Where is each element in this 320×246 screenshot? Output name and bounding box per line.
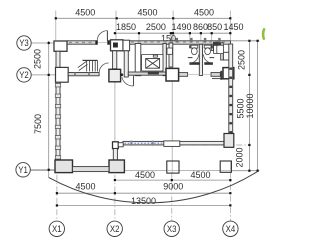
- extension X1 bottom: [56, 175, 58, 221]
- right dim line B (10000): [257, 41, 259, 171]
- entrance door arc: [97, 31, 107, 41]
- right dim line A (2500/5500/2000): [248, 41, 250, 171]
- svg-text:1450: 1450: [223, 22, 243, 32]
- svg-text:4500: 4500: [194, 8, 214, 18]
- toilet short partition right: [211, 44, 213, 50]
- elevator door sill dark: [148, 72, 159, 75]
- ticks bottom row2: [56, 192, 58, 194]
- wc1 tank: [191, 45, 198, 48]
- blue dashed segment: [125, 142, 164, 144]
- svg-text:4500: 4500: [135, 170, 155, 180]
- column X3/Y2: [166, 68, 179, 81]
- wall insulation dashes: [69, 42, 95, 44]
- junction nub: [118, 143, 123, 147]
- stair door arc: [99, 63, 109, 73]
- column X4/Y1: [220, 161, 231, 172]
- wall top band right segment: [109, 41, 230, 44]
- wc1 valve: [189, 45, 191, 48]
- grid lines through X3 square: [171, 162, 173, 173]
- svg-text:5500: 5500: [236, 98, 246, 118]
- elevator cab outer: [142, 54, 163, 71]
- tick Y2 wall right: [120, 74, 122, 77]
- wall Y2 stair ticks: [74, 73, 76, 76]
- extension line X3 top: [172, 11, 174, 41]
- south wall window: [164, 141, 180, 147]
- toilet door arc 2: [203, 54, 212, 63]
- leader Y1: [30, 169, 54, 171]
- svg-text:2000: 2000: [235, 147, 245, 167]
- south wall: [123, 141, 231, 145]
- Y2 thin stub right of column: [121, 74, 135, 76]
- column X2/Y3 core: [113, 43, 118, 48]
- toilet west wall: [169, 43, 173, 67]
- partition foot dark: [220, 71, 222, 80]
- door threshold lines: [188, 73, 200, 75]
- extension line X4 top: [229, 11, 231, 41]
- toilet west duct box: [167, 48, 173, 54]
- svg-text:860: 860: [193, 22, 208, 32]
- column X4/Y2: [223, 68, 234, 79]
- node X2: [107, 221, 122, 236]
- hall door leaf: [133, 76, 135, 86]
- node X1: [49, 221, 64, 236]
- column X2/Y3: [111, 40, 124, 51]
- extension stub 860 tick: [200, 33, 202, 40]
- east wall X4: [229, 44, 233, 147]
- toilet east inner wall: [221, 43, 224, 60]
- shaft corner block: [123, 40, 130, 51]
- svg-text:4500: 4500: [75, 8, 95, 18]
- ticks top row1: [55, 17, 57, 19]
- leader Y2: [31, 74, 55, 76]
- wc2 tank: [204, 45, 211, 48]
- column X1/Y2: [56, 67, 69, 82]
- notch step lines: [212, 78, 225, 80]
- NE window bay: [223, 52, 231, 60]
- toilet door bar 1: [189, 62, 200, 65]
- dash-dot reference line y=145: [121, 144, 250, 146]
- bottom dim row3: [56, 204, 230, 206]
- extension stub 850 tick: [211, 33, 213, 40]
- leader Y3: [31, 42, 54, 44]
- svg-text:2500: 2500: [146, 22, 166, 32]
- toilet south wall seg1: [167, 73, 188, 77]
- slop sink: [217, 45, 224, 53]
- stair: [78, 60, 98, 71]
- svg-text:4500: 4500: [75, 182, 95, 192]
- node X4: [223, 221, 238, 236]
- toilet fixture outline: [214, 45, 220, 53]
- toilet mid partition: [199, 44, 202, 75]
- svg-text:9000: 9000: [163, 182, 183, 192]
- wall Y2 stair: [68, 73, 99, 76]
- wc1 grab bar: [188, 57, 193, 59]
- wall X2 stairwell east: [113, 51, 117, 69]
- hall west wall: [124, 51, 128, 77]
- elevator cab inner X box: [146, 59, 160, 69]
- toilet door bar 2: [204, 62, 213, 65]
- svg-text:2500: 2500: [33, 49, 43, 69]
- junction block X2/south: [113, 142, 119, 149]
- extension stub 1490 tick: [189, 33, 191, 40]
- ticks left dim: [48, 42, 50, 44]
- beam Y1: [73, 167, 110, 172]
- top dim line row1: [56, 17, 231, 19]
- ticks bottom row3: [56, 204, 58, 206]
- svg-text:10000: 10000: [245, 93, 255, 118]
- wc1 bowl: [191, 48, 197, 55]
- east wall window marks: [229, 68, 232, 134]
- svg-text:13500: 13500: [131, 196, 156, 206]
- column X2/Y2: [109, 69, 121, 82]
- wc2 grab bar: [210, 57, 215, 59]
- extension stub 1850/2500 tick: [138, 33, 140, 40]
- hall door arc: [122, 77, 134, 86]
- sink marks top: [176, 38, 221, 43]
- column X1/Y3: [54, 41, 67, 51]
- ticks bottom row1: [114, 179, 116, 181]
- entrance threshold: [98, 41, 108, 43]
- svg-text:X3: X3: [167, 224, 177, 234]
- column X3/Y1: [167, 161, 179, 173]
- left dim line: [48, 41, 50, 177]
- node Y1: [16, 163, 30, 177]
- wall left (X1): [56, 51, 60, 160]
- south wall mullion 2: [152, 141, 154, 146]
- hall south wall: [128, 72, 166, 75]
- Y3 extension right: [231, 40, 259, 42]
- ticks right dim A: [248, 40, 250, 42]
- node X3: [164, 221, 179, 236]
- toilet door arc 1: [190, 54, 199, 63]
- big site arc: [49, 171, 258, 203]
- door jamb left: [96, 40, 98, 44]
- porch wall X2: [113, 149, 117, 160]
- Y1 extension right: [232, 170, 260, 172]
- svg-text:Y1: Y1: [18, 165, 28, 175]
- entrance door leaf: [106, 31, 108, 41]
- extension stub 2500 end tick: [170, 33, 172, 40]
- wc2 valve: [211, 45, 213, 48]
- extension line X2 top: [115, 11, 117, 40]
- ticks right dim B: [257, 40, 259, 42]
- south wall mullion 1: [130, 141, 132, 146]
- toilet south wall seg3: [211, 73, 220, 77]
- grid lines through X4 square: [229, 162, 231, 172]
- svg-text:X4: X4: [226, 224, 236, 234]
- extension X3 bottom: [171, 173, 173, 221]
- extension line X1 top: [55, 11, 57, 41]
- svg-text:X2: X2: [110, 224, 120, 234]
- svg-text:7500: 7500: [33, 114, 43, 134]
- bottom dim row2: [56, 192, 230, 194]
- svg-text:850: 850: [207, 22, 222, 32]
- wc2 bowl: [205, 48, 211, 55]
- door jamb right: [107, 40, 109, 44]
- svg-text:2500: 2500: [237, 50, 247, 70]
- extension X4 bottom: [229, 173, 231, 222]
- node Y2: [17, 68, 31, 82]
- column X2/Y1: [109, 160, 124, 173]
- column X1/Y1: [55, 160, 73, 173]
- bottom dim row1: [115, 179, 230, 181]
- svg-text:1850: 1850: [116, 22, 136, 32]
- svg-text:X1: X1: [52, 224, 62, 234]
- wall top band left segment: [67, 41, 96, 44]
- counterweight: [153, 55, 157, 57]
- X3 interior grid line: [171, 81, 173, 161]
- Y1 thin line across: [30, 170, 230, 172]
- svg-text:4500: 4500: [137, 8, 157, 18]
- svg-text:4500: 4500: [190, 170, 210, 180]
- X2 interior grid line: [114, 81, 116, 142]
- toilet dark fixture box: [213, 42, 221, 45]
- top dim line row2: [115, 32, 231, 34]
- green crescent mark: [263, 29, 264, 38]
- svg-text:Y2: Y2: [19, 70, 29, 80]
- left wall window marks: [55, 84, 60, 159]
- svg-text:1490: 1490: [171, 22, 191, 32]
- SE corner block: [224, 134, 234, 148]
- ticks top row2: [114, 32, 116, 34]
- shaft right wall: [163, 44, 166, 76]
- node Y3: [17, 36, 31, 50]
- extension X2 bottom: [114, 175, 116, 221]
- svg-text:Y3: Y3: [19, 38, 29, 48]
- shaft left wall: [135, 44, 141, 76]
